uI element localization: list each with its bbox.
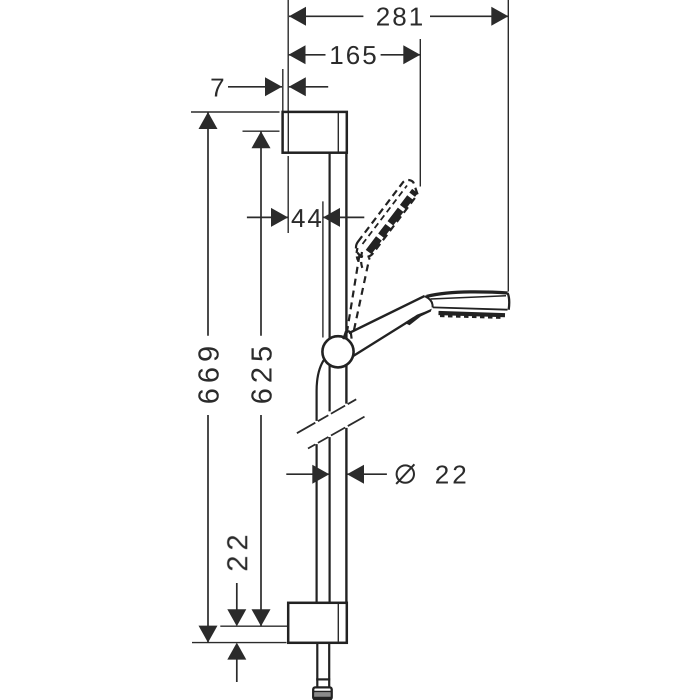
wire rail left line (329, 153, 331, 603)
hose (317, 359, 325, 603)
shower head nozzle band (439, 313, 506, 315)
dimension 22 vertical (bottom) (236, 583, 238, 682)
dimension diameter 22 (286, 473, 387, 475)
top bracket inner lines (288, 113, 338, 152)
shower head right end (508, 293, 510, 310)
hand shower neck front curve (425, 296, 433, 307)
wire rail right line (345, 153, 347, 603)
dimension 625 vertical (260, 132, 262, 627)
svg-text:669: 669 (194, 341, 226, 404)
bottom bracket inner line (337, 604, 339, 642)
svg-text:7: 7 (210, 73, 226, 103)
dashed shower (upper position) head outline (356, 180, 418, 257)
break symbol (297, 399, 365, 448)
extension line top horizontal y=112 (191, 111, 280, 113)
dimension 281 (289, 15, 508, 17)
svg-text:22: 22 (222, 529, 254, 571)
dashed shower nozzle band (369, 191, 415, 252)
dashed shower face line (363, 186, 408, 245)
extension line bracket left (x=282.8) (282, 69, 284, 111)
bottom wall bracket (288, 603, 347, 643)
svg-text:281: 281 (376, 2, 425, 32)
dimension 44 (247, 216, 364, 218)
dimension 669 vertical (207, 113, 209, 643)
dashed handle lines (347, 248, 370, 333)
hose below bracket (316, 643, 330, 687)
svg-text:44: 44 (291, 203, 324, 233)
svg-text:22: 22 (435, 460, 470, 490)
extension line y=131 (243, 130, 280, 132)
slider ball (322, 336, 353, 367)
shower head inner top line (431, 296, 507, 299)
extension line y=626.2 (220, 625, 287, 627)
slider clip stub (343, 331, 351, 339)
svg-text:625: 625 (247, 341, 279, 404)
top wall bracket (283, 112, 347, 153)
extension line top wall (x=288) (287, 0, 289, 111)
svg-text:165: 165 (329, 40, 378, 70)
extension line y=642.6 (192, 642, 287, 644)
dimension 7 (228, 86, 328, 88)
extension line dashed head (x=420.3) (419, 39, 421, 187)
shower head bottom line (433, 307, 508, 309)
hose nut (313, 687, 332, 699)
shower head (solid) top edge (427, 292, 508, 297)
hand shower neck dark wedge (405, 309, 432, 326)
extension line head right (x=508.3) (507, 0, 509, 292)
hand shower handle (solid) (349, 296, 425, 356)
dimension 165 (289, 54, 421, 56)
extension line 44 right (x=322.9) (322, 201, 324, 337)
extension line wall below bracket (287, 156, 289, 233)
